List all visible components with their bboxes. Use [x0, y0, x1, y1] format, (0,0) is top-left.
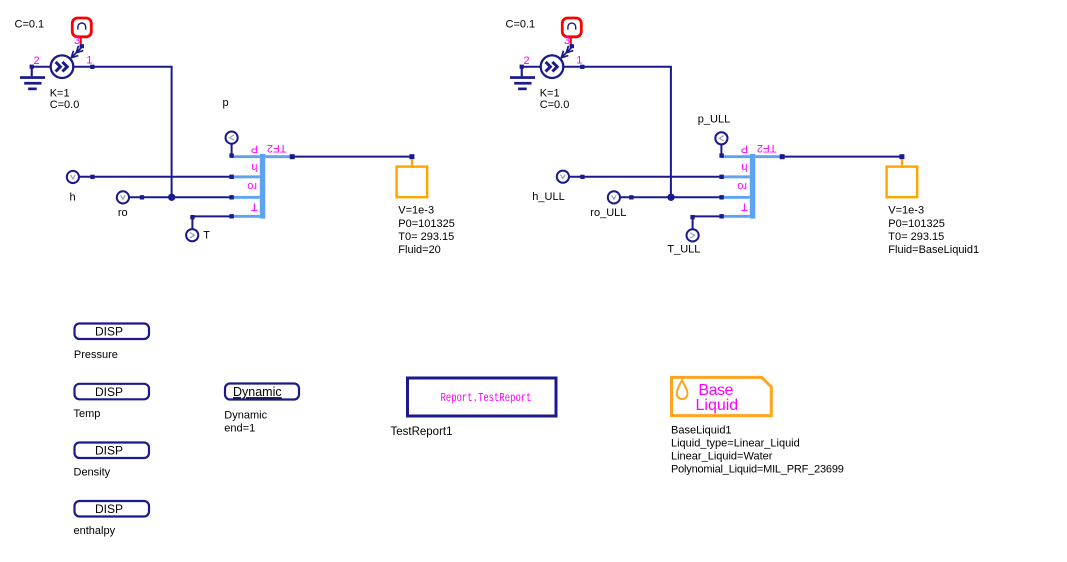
svg-text:Dynamic: Dynamic [233, 385, 282, 399]
wire T row (left) [192, 215, 231, 217]
orange stub to volume (right) [901, 159, 903, 167]
svg-text:DISP: DISP [95, 444, 123, 458]
wire h sensor to TF2 (right) [569, 176, 721, 178]
svg-text:ro: ro [118, 207, 128, 219]
sensor h (left) [67, 171, 79, 183]
ground symbol (left) [20, 68, 45, 90]
svg-text:P: P [741, 143, 748, 155]
node square at arrow start (left) [80, 44, 84, 48]
svg-text:Pressure: Pressure [74, 349, 118, 361]
red stem wire from source box (right) [570, 37, 572, 45]
svg-text:P0=101325: P0=101325 [888, 218, 945, 230]
svg-text:T0= 293.15: T0= 293.15 [398, 231, 454, 243]
svg-text:ro_ULL: ro_ULL [590, 207, 626, 219]
svg-text:end=1: end=1 [224, 423, 255, 435]
node square at ground pin (left) [30, 65, 34, 69]
svg-text:TF2: TF2 [267, 142, 287, 154]
svg-text:T: T [203, 229, 210, 241]
node square TF2 out (left) [290, 154, 295, 159]
node square T bend (left) [190, 215, 194, 219]
svg-text:BaseLiquid1: BaseLiquid1 [671, 425, 732, 437]
svg-text:V=1e-3: V=1e-3 [398, 204, 434, 216]
node square TF2 out (right) [780, 154, 785, 159]
volume component V2 (right orange box) [887, 167, 918, 198]
sensor ro (left) [117, 191, 129, 203]
svg-text:K=1: K=1 [540, 88, 560, 100]
node square at arrow start (right) [570, 44, 574, 48]
Report.TestReport box [408, 378, 557, 416]
wire T down (right) [692, 217, 694, 230]
sensor T (left) [186, 229, 198, 241]
TF2 block body (right) [721, 154, 781, 219]
node square ro wire (left) [140, 195, 144, 199]
svg-text:T_ULL: T_ULL [667, 244, 700, 256]
svg-text:h: h [741, 161, 747, 173]
DISP button Pressure [75, 324, 150, 340]
node square pin1 (left) [90, 65, 94, 69]
wire TF2 to volume (left) [292, 156, 412, 158]
svg-text:DISP: DISP [95, 502, 123, 516]
node square ro wire (right) [629, 195, 633, 199]
wire TF2 to volume (right) [782, 156, 902, 158]
svg-text:Polynomial_Liquid=MIL_PRF_2369: Polynomial_Liquid=MIL_PRF_23699 [671, 464, 844, 476]
svg-text:DISP: DISP [95, 325, 123, 339]
wire pump to ground (right) [523, 66, 541, 68]
wire h sensor to TF2 (left) [79, 176, 231, 178]
wire ro sensor to TF2 (left) [129, 196, 231, 198]
wire pump to ground (left) [33, 66, 51, 68]
svg-text:P0=101325: P0=101325 [398, 218, 455, 230]
wire T row (right) [692, 215, 721, 217]
svg-text:Dynamic: Dynamic [224, 410, 267, 422]
wire ro sensor to TF2 (right) [620, 196, 721, 198]
DISP button enthalpy [75, 501, 150, 517]
svg-text:Fluid=BaseLiquid1: Fluid=BaseLiquid1 [888, 244, 979, 256]
svg-text:2: 2 [524, 55, 530, 67]
red stem wire from source box [80, 37, 82, 45]
node square T bend (right) [690, 215, 694, 219]
node square h wire (right) [580, 175, 584, 179]
TF2 block body (left) [231, 154, 291, 219]
wire T down (left) [191, 217, 193, 230]
DISP button Density [75, 443, 150, 459]
junction dot (right) [667, 194, 674, 201]
Dynamic button [225, 384, 299, 400]
svg-text:h: h [251, 161, 257, 173]
node square h wire (left) [90, 175, 94, 179]
trunk wire down (right) [670, 67, 672, 198]
wire sensor p to TF2 (left) [231, 144, 233, 156]
svg-text:2: 2 [34, 55, 40, 67]
pressure sensor p (left) [226, 132, 238, 144]
svg-text:p: p [223, 97, 229, 109]
sensor ro (right) [608, 191, 620, 203]
TF2 pin squares (right) [719, 153, 723, 218]
svg-text:C=0.0: C=0.0 [540, 99, 570, 111]
svg-text:T: T [251, 200, 258, 212]
svg-text:p_ULL: p_ULL [698, 113, 730, 125]
svg-text:DISP: DISP [95, 385, 123, 399]
signal source U2 (red rounded box with arc) [562, 18, 581, 37]
svg-text:P: P [251, 143, 258, 155]
node square at ground pin (right) [520, 65, 524, 69]
svg-text:Fluid=20: Fluid=20 [398, 244, 441, 256]
node square at volume (left) [409, 154, 414, 159]
svg-text:Report.TestReport: Report.TestReport [441, 391, 532, 405]
svg-text:T: T [741, 200, 748, 212]
signal source U1 (red rounded box with arc) [72, 18, 91, 37]
svg-text:TestReport1: TestReport1 [391, 426, 453, 438]
svg-text:C=0.1: C=0.1 [506, 19, 536, 31]
node square at volume (right) [899, 154, 904, 159]
pump/source circle component (left) [51, 55, 74, 78]
svg-text:enthalpy: enthalpy [74, 525, 116, 537]
svg-text:3: 3 [564, 35, 570, 47]
wire sensor p to TF2 (right) [720, 144, 722, 156]
svg-text:h_ULL: h_ULL [532, 191, 564, 203]
trunk wire down (left) [171, 67, 173, 198]
svg-text:Linear_Liquid=Water: Linear_Liquid=Water [671, 451, 773, 463]
node square pin1 (right) [580, 65, 584, 69]
orange stub to volume (left) [411, 159, 413, 167]
ground symbol (right) [510, 68, 535, 90]
svg-text:ro: ro [247, 180, 257, 192]
DISP button Temp [75, 384, 150, 400]
svg-text:C=0.0: C=0.0 [50, 99, 80, 111]
svg-text:Liquid: Liquid [696, 397, 739, 414]
droplet icon [677, 380, 688, 399]
svg-text:Liquid_type=Linear_Liquid: Liquid_type=Linear_Liquid [671, 438, 800, 450]
svg-text:V=1e-3: V=1e-3 [888, 204, 924, 216]
svg-text:Density: Density [74, 467, 111, 479]
BaseLiquid tag shape [672, 377, 772, 415]
TF2 pin squares (left) [229, 153, 233, 218]
pressure sensor p (right) [715, 132, 727, 144]
svg-text:K=1: K=1 [50, 88, 70, 100]
svg-text:TF2: TF2 [757, 142, 777, 154]
control arrow into pump (left) [71, 46, 83, 58]
wire pump output to bend (right) [563, 66, 672, 68]
svg-text:ro: ro [737, 180, 747, 192]
junction dot (left) [168, 194, 175, 201]
control arrow into pump (right) [561, 46, 573, 58]
svg-text:C=0.1: C=0.1 [15, 19, 45, 31]
svg-text:3: 3 [74, 35, 80, 47]
svg-text:T0= 293.15: T0= 293.15 [888, 231, 944, 243]
volume component V1 (left orange box) [397, 167, 428, 198]
svg-text:h: h [70, 191, 76, 203]
sensor h (right) [557, 171, 569, 183]
wire pump output to bend (left) [73, 66, 172, 68]
pump/source circle component (right) [541, 55, 564, 78]
svg-text:Temp: Temp [74, 408, 101, 420]
sensor T (right) [687, 229, 699, 241]
